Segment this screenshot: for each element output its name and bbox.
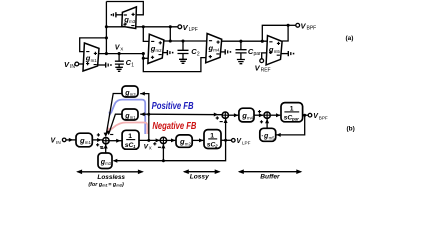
transconductor gm4 — [206, 34, 222, 63]
svg-text:Negative FB: Negative FB — [152, 121, 196, 132]
node junction VBPF tap — [287, 24, 290, 27]
svg-text:m1: m1 — [130, 115, 136, 120]
sign minus upper-right of S1 — [110, 134, 113, 136]
wire VX to gm2 plus and gm4 plus (bottom U) — [143, 54, 206, 72]
wire VREF to gm5 plus input — [262, 53, 268, 59]
svg-text:REF: REF — [261, 67, 271, 73]
label C1 — [126, 58, 135, 68]
wire gm1 feedback row to buffer summer S3 — [149, 113, 222, 117]
wire gm3 fb output diagonal to S1 with arrow — [104, 94, 122, 138]
svg-text:X: X — [120, 47, 123, 52]
transconductor gm5 — [266, 36, 282, 65]
node junction VX riser / gm1 feedback row — [147, 113, 150, 116]
node junction VX (b) — [147, 139, 150, 142]
sign plus upper-left of S4 — [258, 110, 261, 113]
wire S1 to integrator 1/sC1 with arrow — [109, 139, 121, 143]
wire to VBPF terminal — [288, 24, 296, 26]
svg-text:LPF: LPF — [242, 140, 251, 145]
svg-text:m3: m3 — [105, 161, 111, 166]
sign plus lower-left of S4 — [260, 120, 263, 123]
wire gm2 to integrator 1/sC2 with arrow — [192, 138, 203, 142]
capacitor C2 — [178, 41, 189, 59]
wire VX vertical riser — [105, 2, 107, 54]
label Cpar — [248, 47, 261, 57]
svg-text:2: 2 — [197, 51, 200, 57]
arrow into gm3 bottom block — [113, 159, 117, 163]
wire VBPF feedback to -gm5 block with arrow — [276, 115, 304, 137]
sign plus lower-left of S3 — [216, 116, 219, 119]
node junction gm2 plus branch — [142, 57, 145, 60]
wire S2 to gm2 block with arrow — [167, 138, 176, 142]
label Lossless with range arrow — [76, 170, 144, 188]
wire VX rail — [98, 53, 143, 55]
wire gm1 negative feedback loop — [80, 38, 107, 52]
svg-text:par: par — [291, 116, 299, 121]
wire VLPF rail — [106, 26, 177, 28]
wire gm3 outer loop — [106, 2, 143, 15]
svg-text:LPF: LPF — [189, 27, 198, 33]
wire -gm5 output up to S4 with arrow — [265, 119, 269, 129]
label C2 — [191, 47, 200, 57]
label (b) — [347, 126, 355, 133]
float terminal of gm1 unused output — [98, 62, 112, 67]
block gm2 — [176, 135, 192, 147]
wire VIN to gm1 block with arrow — [66, 138, 76, 142]
node junction VX rail to gm2 branch — [142, 52, 145, 55]
float terminal of gm3 unused output — [111, 12, 123, 17]
wire 1/sC1 to summer S2 with arrow / node VX — [139, 138, 160, 142]
svg-text:IN: IN — [56, 140, 61, 145]
ground for C2 — [179, 59, 187, 63]
block integrator 1/sCpar — [281, 103, 303, 122]
label VBPF (b) — [313, 113, 328, 120]
sign minus below S2 — [158, 146, 161, 148]
label Negative FB — [152, 121, 196, 132]
wire gm1 block to summer S1 with arrow — [92, 138, 102, 142]
node VLPF terminal (b) — [232, 139, 236, 143]
node VLPF terminal — [178, 25, 182, 29]
label (a) — [346, 35, 354, 42]
wire gm4 to summer S4 with arrow — [254, 113, 263, 117]
svg-text:m5: m5 — [269, 135, 275, 140]
wire gm2 minus input from VLPF rail — [143, 27, 149, 42]
label Buffer with range arrow — [238, 169, 302, 180]
node VREF terminal — [260, 59, 264, 63]
block gm3 (bottom, lossless pair) — [98, 153, 112, 169]
float terminal of gm4 unused output — [221, 49, 232, 54]
wire S3 to gm4 block with arrow — [229, 113, 239, 117]
wire VLPF riser to buffer summer S3 with arrow — [224, 119, 228, 141]
label VREF — [255, 63, 271, 73]
node junction Cpar tap — [239, 40, 242, 43]
node junction VLPF up-link — [169, 39, 172, 42]
arrow into gm1 feedback block — [140, 112, 149, 116]
summer S2 — [160, 137, 166, 143]
node junction VBPF feedback tap — [303, 114, 306, 117]
summer S1 — [103, 138, 109, 144]
transconductor gm2 — [148, 34, 164, 63]
svg-text:m3: m3 — [129, 19, 136, 24]
svg-text:m1: m1 — [102, 184, 107, 188]
block gm3 (positive feedback) — [122, 86, 138, 97]
svg-text:m4: m4 — [213, 48, 220, 53]
node VBPF terminal (b) — [308, 113, 312, 117]
node junction VLPF rail / up-link — [169, 25, 172, 28]
node VIN terminal (b) — [62, 138, 66, 142]
sign plus upper-left of S1 — [97, 133, 100, 136]
wire 1/sCpar to VBPF terminal — [303, 114, 309, 116]
svg-text:Lossy: Lossy — [190, 174, 209, 181]
negative feedback highlight (pink overlay) — [107, 123, 148, 135]
label VIN — [64, 60, 75, 70]
block gm4 — [239, 108, 254, 122]
label VX (b) — [144, 143, 152, 150]
block integrator 1/sC1 — [122, 130, 139, 149]
capacitor C1 — [115, 54, 124, 68]
wire VIN to gm1 — [79, 63, 84, 65]
transconductor gm1 — [83, 43, 99, 71]
sign minus below S3 — [220, 121, 223, 123]
svg-text:IN: IN — [70, 64, 75, 70]
summer S3 (buffer input) — [222, 112, 228, 118]
label VLPF (b) — [236, 138, 250, 145]
label VLPF — [183, 23, 198, 33]
label Lossy with range arrow — [183, 169, 221, 180]
sign plus lower-left of S1 — [96, 143, 99, 146]
svg-text:Buffer: Buffer — [260, 174, 280, 181]
block gm1 (feed-in) — [76, 133, 92, 147]
wire VLPF bottom feedback rail — [114, 140, 226, 160]
wire S4 to integrator 1/sCpar with arrow — [270, 113, 280, 117]
svg-text:BPF: BPF — [307, 26, 317, 32]
svg-text:m4: m4 — [247, 115, 254, 120]
positive feedback highlight (blue overlay) — [109, 100, 146, 134]
wire VX riser to feedback rows — [140, 92, 149, 141]
wire gm1 fb output diagonal to S1 with arrow — [106, 114, 122, 135]
wire gm4 output rail to gm5 — [222, 40, 268, 42]
wire gm3 bottom output up to S1 with arrow — [104, 144, 108, 153]
node junction VX riser / VLPF rail — [105, 25, 108, 28]
svg-text:2: 2 — [214, 143, 218, 148]
block -gm5 — [260, 128, 276, 141]
float terminal of gm2 unused output — [163, 50, 174, 55]
svg-text:(a): (a) — [346, 35, 354, 42]
wire 1/sC2 to VLPF terminal — [221, 139, 231, 141]
svg-text:(b): (b) — [347, 126, 355, 133]
summer S4 — [264, 112, 270, 118]
svg-text:X: X — [149, 145, 152, 150]
label Positive FB — [152, 101, 194, 112]
node junction S2 feedback tap — [162, 159, 165, 162]
node junction VLPF rail to gm2 minus input — [142, 25, 145, 28]
svg-text:m3: m3 — [130, 92, 136, 97]
svg-text:m1: m1 — [91, 58, 98, 63]
wire VLPF up-link — [169, 27, 171, 41]
transconductor gm3 — [122, 7, 137, 29]
svg-text:m1: m1 — [85, 140, 92, 145]
node junction C1 tap — [118, 52, 121, 55]
wire gm2 output rail to gm4 — [164, 40, 208, 42]
node junction VX riser / VX rail — [105, 52, 108, 55]
node VBPF terminal — [296, 23, 300, 27]
node junction VLPF riser — [224, 139, 227, 142]
wire gm5 feedback loop — [262, 25, 288, 41]
label VX — [115, 44, 124, 51]
sign minus lower of S1 — [100, 147, 103, 149]
block integrator 1/sC2 — [204, 130, 221, 149]
capacitor Cpar — [236, 41, 247, 59]
svg-text:m2: m2 — [185, 141, 192, 146]
float terminal of gm5 unused output — [281, 51, 294, 56]
wire gm2 plus stub — [143, 57, 148, 59]
node junction C2 tap — [181, 39, 184, 42]
svg-text:m2: m2 — [156, 48, 163, 53]
node junction gm5 input / feedback loop — [261, 40, 264, 43]
label VBPF — [301, 21, 317, 31]
sign plus left of S2 — [153, 142, 156, 145]
svg-text:1: 1 — [131, 62, 134, 68]
svg-text:m5: m5 — [274, 49, 281, 54]
svg-text:(for g: (for g — [88, 182, 102, 188]
node junction gm1 loop / VX vertical — [105, 36, 108, 39]
block gm1 (negative feedback) — [122, 109, 138, 120]
svg-text:Positive FB: Positive FB — [152, 101, 194, 112]
ground for C1 — [115, 67, 123, 71]
svg-text:): ) — [121, 182, 124, 188]
svg-text:Lossless: Lossless — [97, 174, 125, 181]
ground for Cpar — [237, 60, 245, 64]
label VIN (b) — [51, 138, 61, 145]
svg-text:BPF: BPF — [319, 115, 328, 120]
node VIN terminal — [75, 62, 79, 66]
wire S2 feedback riser with arrow — [161, 144, 165, 161]
sign minus left of gm3 bottom riser — [100, 146, 103, 148]
svg-text:par: par — [254, 51, 262, 57]
